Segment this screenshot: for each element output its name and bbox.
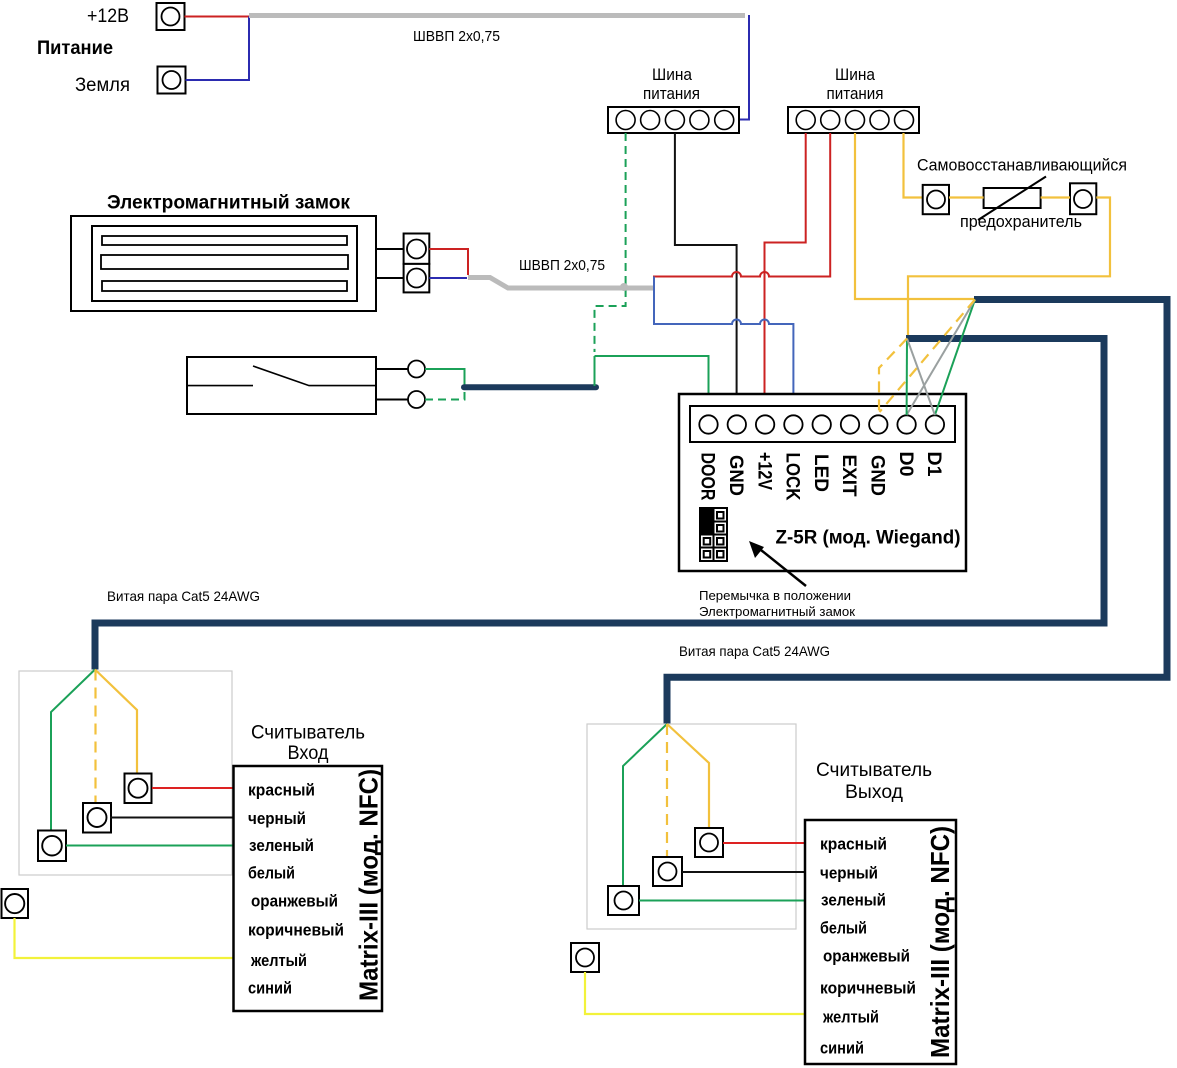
wire green sensor solid [425, 369, 465, 385]
svg-text:EXIT: EXIT [838, 455, 859, 497]
svg-text:LED: LED [810, 454, 831, 492]
cable cat5 navy to reader2 [667, 300, 1167, 725]
door sensor switch [187, 385, 253, 387]
svg-text:Matrix-III (мод. NFC): Matrix-III (мод. NFC) [354, 769, 384, 1001]
wire yellow bright reader2 [585, 972, 805, 1014]
svg-text:Шина: Шина [835, 65, 875, 84]
cable sheath box reader1 [19, 671, 232, 875]
fuse body F1 [978, 177, 1046, 221]
fuse right terminal [1070, 183, 1096, 214]
svg-text:красный: красный [248, 781, 315, 800]
Z-5R connector strip [690, 406, 955, 442]
terminal green reader1 [38, 831, 66, 862]
svg-text:желтый: желтый [822, 1008, 879, 1027]
svg-text:Вход: Вход [288, 743, 329, 764]
wire blue ground to cable [186, 17, 250, 81]
cable sheath box reader2 [587, 724, 796, 929]
reader1 Matrix-III box [234, 766, 383, 1011]
svg-text:Витая пара Cat5 24AWG: Витая пара Cat5 24AWG [679, 643, 830, 659]
terminal green reader2 [608, 886, 639, 915]
terminal exit-button reader2 [571, 943, 599, 972]
svg-text:белый: белый [820, 919, 867, 938]
pin GND [728, 415, 746, 433]
svg-text:коричневый: коричневый [820, 979, 916, 998]
svg-text:DOOR: DOOR [697, 453, 718, 501]
wire green fan1 [51, 670, 95, 839]
lock terminal block [404, 234, 430, 293]
cable ШВВП top [249, 13, 745, 18]
wire black bus1 to GND pin [675, 133, 737, 415]
wire blue lock to LOCK pin [654, 277, 793, 416]
wire red lock [429, 249, 468, 275]
wire yellow dashed cable1 to GND [879, 339, 907, 413]
svg-text:Земля: Земля [75, 75, 130, 96]
pin GND2 [869, 415, 887, 433]
wire red bus2 to +12V pin [765, 133, 806, 415]
pin LED [813, 415, 831, 433]
svg-text:GND: GND [725, 455, 746, 496]
terminal red reader2 [695, 828, 723, 857]
cable cat5 navy to reader1 [95, 339, 1104, 670]
wire green reader1 [66, 845, 234, 847]
wire yellow fan2 [667, 724, 709, 831]
svg-text:питания: питания [643, 84, 700, 103]
svg-text:Перемычка в положении: Перемычка в положении [699, 588, 851, 603]
svg-text:ШВВП 2х0,75: ШВВП 2х0,75 [413, 28, 500, 45]
svg-text:Электромагнитный замок: Электромагнитный замок [107, 192, 350, 214]
svg-text:черный: черный [820, 864, 878, 883]
svg-text:Электромагнитный замок: Электромагнитный замок [699, 604, 855, 619]
svg-text:белый: белый [248, 864, 295, 883]
svg-text:оранжевый: оранжевый [823, 947, 910, 966]
wire red reader2 [723, 842, 805, 844]
cable ШВВП lock [468, 278, 653, 289]
pin DOOR [699, 415, 717, 433]
wire red bus2 to lock red [653, 133, 830, 277]
wire black reader2 [682, 871, 805, 873]
svg-text:зеленый: зеленый [249, 836, 314, 855]
power bus 2 [788, 107, 919, 133]
svg-text:оранжевый: оранжевый [251, 892, 338, 911]
svg-text:черный: черный [248, 809, 306, 828]
sensor stubs [376, 368, 408, 370]
pin D0 [897, 415, 915, 433]
wire yellow fuse right link [1041, 196, 1070, 198]
svg-text:Matrix-III (мод. NFC): Matrix-III (мод. NFC) [925, 826, 955, 1058]
door sensor box [187, 357, 376, 414]
pin +12V [756, 415, 774, 433]
reader2 Matrix-III box [805, 820, 956, 1064]
svg-text:Z-5R (мод. Wiegand): Z-5R (мод. Wiegand) [776, 528, 961, 549]
svg-text:Витая пара Cat5 24AWG: Витая пара Cat5 24AWG [107, 588, 260, 604]
pin EXIT [841, 415, 859, 433]
svg-text:предохранитель: предохранитель [960, 213, 1082, 231]
wire red +12V to cable [185, 16, 250, 18]
wire gray cable1 to D1 [907, 339, 935, 416]
svg-text:D1: D1 [923, 452, 944, 477]
svg-text:желтый: желтый [250, 951, 307, 970]
power bus 1 [608, 107, 739, 133]
terminal black reader1 [83, 803, 111, 833]
svg-text:+12В: +12В [87, 6, 129, 27]
wire yellow fuse return [908, 198, 1110, 337]
svg-text:LOCK: LOCK [782, 453, 803, 501]
terminal +12V [157, 3, 185, 30]
terminal exit-button reader1 [2, 889, 29, 918]
svg-text:D0: D0 [895, 452, 916, 477]
wire yellow dashed fan2 [666, 724, 668, 859]
sensor contact circles [408, 361, 425, 378]
wire gray cable2 to D0 [907, 300, 975, 416]
wire green to DOOR pin [595, 356, 709, 415]
svg-text:ШВВП 2х0,75: ШВВП 2х0,75 [519, 257, 605, 274]
svg-text:GND: GND [867, 455, 888, 496]
cable joint bump [620, 283, 628, 291]
terminal black reader2 [653, 857, 682, 886]
wire blue cable to bus1 [734, 15, 750, 120]
svg-text:синий: синий [248, 979, 292, 998]
wire yellow dashed fan1 [94, 670, 96, 810]
fuse left terminal [923, 185, 949, 214]
svg-text:Питание: Питание [37, 38, 113, 59]
jumper block [700, 508, 727, 561]
wire yellow dashed cable2 to GND [880, 300, 976, 413]
svg-text:Шина: Шина [652, 65, 692, 84]
wire green node vertical [594, 356, 596, 386]
wire yellow bus2 to fuse [904, 133, 923, 198]
wire red reader1 [152, 787, 234, 789]
wire yellow bus2 to cat5 right [855, 133, 974, 299]
wire green reader2 [639, 900, 805, 902]
wire green cable2 to D1 [935, 300, 975, 416]
jumper arrow [749, 541, 806, 586]
svg-text:Самовосстанавливающийся: Самовосстанавливающийся [917, 157, 1127, 175]
svg-text:коричневый: коричневый [248, 921, 344, 940]
pin D1 [926, 415, 944, 433]
electromagnetic lock body [71, 216, 376, 311]
wire yellow fan1 [95, 670, 137, 781]
wire yellow fuse left link [949, 196, 984, 198]
wire green fan2 [623, 724, 667, 888]
wire blue lock [429, 277, 467, 279]
terminal Земля [158, 67, 186, 94]
svg-text:+12V: +12V [753, 452, 774, 490]
wire green sensor dashed [425, 390, 465, 400]
svg-text:питания: питания [827, 84, 884, 103]
lock terminal stubs [376, 248, 404, 250]
wire green dashed bus1 to door-node [595, 133, 626, 352]
svg-text:красный: красный [820, 835, 887, 854]
svg-text:Считыватель: Считыватель [816, 760, 932, 781]
svg-text:Выход: Выход [845, 782, 903, 803]
svg-text:синий: синий [820, 1039, 864, 1058]
wire yellow bright reader1 [15, 918, 234, 958]
svg-text:Считыватель: Считыватель [251, 723, 365, 744]
cable navy sensor [464, 384, 596, 390]
wire green cable1 to D0 [906, 339, 908, 416]
wire black reader1 [110, 817, 234, 819]
svg-text:зеленый: зеленый [821, 891, 886, 910]
pin LOCK [784, 415, 802, 433]
controller Z-5R box [679, 394, 966, 571]
terminal red reader1 [125, 774, 152, 804]
